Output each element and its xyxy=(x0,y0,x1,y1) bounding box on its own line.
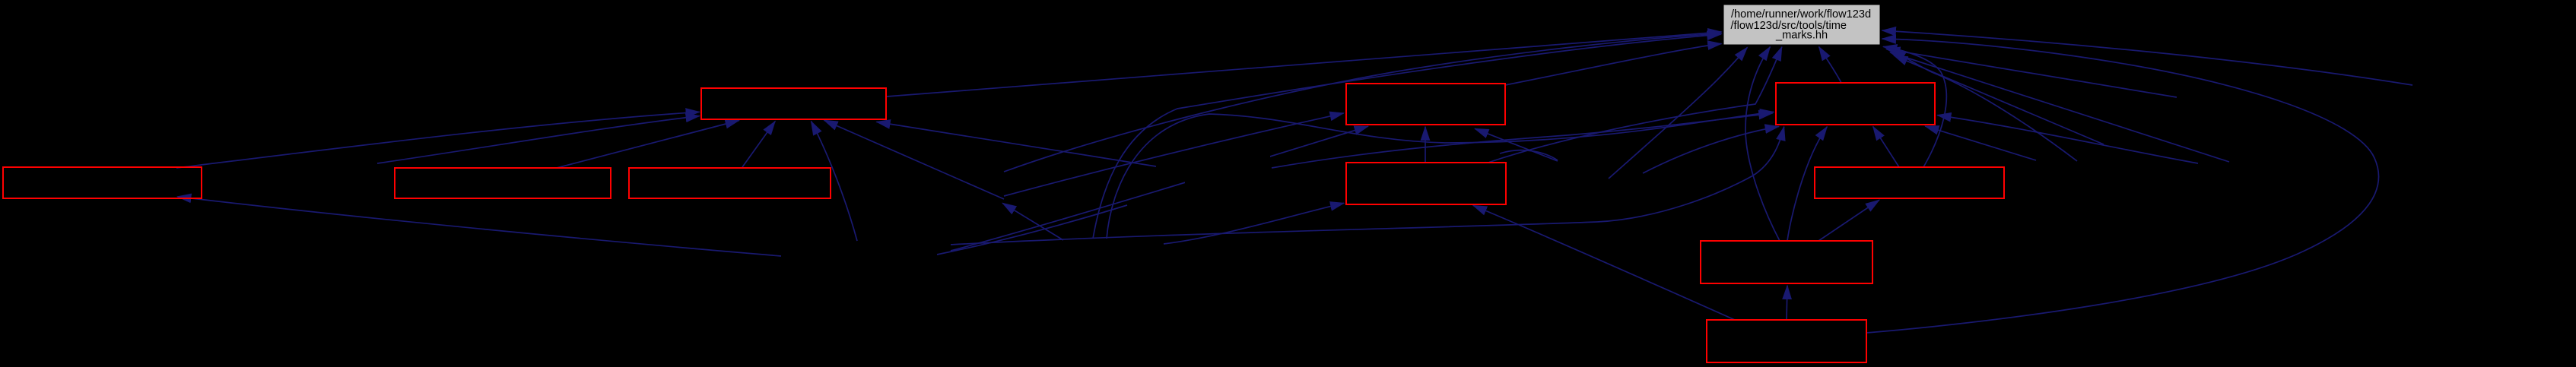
wire K3->A xyxy=(824,120,1005,199)
wire B->A xyxy=(176,112,700,168)
wire J->I xyxy=(1787,286,1787,320)
wire I->M xyxy=(1745,47,1780,241)
node M main grey node xyxy=(1723,5,1880,45)
wire K2->B xyxy=(177,197,781,256)
node C xyxy=(395,168,611,198)
wire E->M xyxy=(1505,44,1721,86)
wire Rb->M xyxy=(1894,55,2104,144)
node J xyxy=(1707,320,1866,362)
wire Rd->M xyxy=(1882,30,2412,85)
node D xyxy=(629,168,831,198)
wire A->M xyxy=(887,32,1721,96)
node B xyxy=(3,167,202,198)
node F xyxy=(1346,163,1506,204)
wire K1->F xyxy=(1164,203,1344,244)
wire K4->A xyxy=(877,122,1157,166)
svg-text:_marks.hh: _marks.hh xyxy=(1775,29,1828,41)
wire J->F xyxy=(1473,205,1735,320)
wire J->M loop xyxy=(1866,39,2379,333)
wire F->K5 stub xyxy=(1500,150,1558,160)
wire Rb->G xyxy=(1937,115,2198,163)
wire K0->A xyxy=(377,116,700,163)
wire D->A xyxy=(742,122,775,167)
wire Rc->M xyxy=(1890,52,2229,162)
node I xyxy=(1701,241,1872,283)
node K6 invisible (black) file node xyxy=(1185,152,1270,202)
wire K9a->G xyxy=(1643,127,1779,174)
wire K9->E xyxy=(1475,128,1558,161)
node H xyxy=(1815,167,2004,198)
wire K3->M xyxy=(1004,33,1722,172)
svg-text:/home/runner/work/flow123d: /home/runner/work/flow123d xyxy=(1731,8,1871,21)
node E xyxy=(1346,84,1505,125)
wire G->M xyxy=(1819,47,1841,83)
wire I->H xyxy=(1818,200,1879,241)
wire Ra->G xyxy=(1925,126,2036,160)
wire K2->K6 xyxy=(937,205,1127,255)
wire f1->M xyxy=(1886,49,2177,97)
wire F->M xyxy=(1489,47,1782,163)
wire K2->E xyxy=(951,126,1368,251)
wire K9->M xyxy=(1609,47,1747,179)
wire K1->G xyxy=(1107,112,1774,239)
wire F->E xyxy=(1425,127,1426,163)
wire I->G xyxy=(1787,127,1827,241)
wire K2->G xyxy=(951,127,1784,245)
wire C->A xyxy=(557,121,739,169)
node G xyxy=(1776,83,1935,125)
wire K8->M xyxy=(1892,50,2078,162)
wire K1->K3 xyxy=(1002,203,1063,240)
wire K2->A xyxy=(812,122,858,241)
wire K1->M xyxy=(1093,34,1721,239)
node A xyxy=(701,88,886,119)
wire H->M xyxy=(1883,46,1946,167)
wire K3->E xyxy=(1004,113,1344,196)
wire H->G xyxy=(1873,127,1899,167)
wire K6->G xyxy=(1272,113,1773,168)
